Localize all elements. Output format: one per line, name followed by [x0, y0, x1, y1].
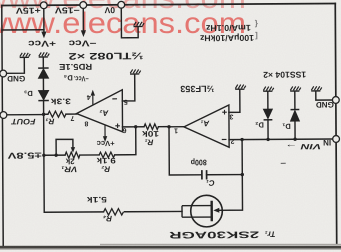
wire C1 branch — [169, 126, 242, 175]
zener D4 RD5.1E — [38, 68, 49, 78]
terminal IN — [333, 136, 340, 143]
arrow +Vcc supply — [41, 32, 46, 39]
wire R4 lead right to FET — [125, 210, 182, 212]
op-amp A2 plus sign — [115, 124, 120, 129]
stray minus mark — [281, 162, 286, 164]
junction node Fout/R3 — [42, 113, 45, 116]
wire gate vertical — [219, 140, 242, 211]
wire VR1 wiper loop — [56, 139, 73, 155]
junction node A1 out — [167, 125, 170, 128]
terminal -15V — [80, 2, 87, 9]
diode D2 1SS104 — [263, 109, 272, 120]
transistor Tr1 body leads — [182, 206, 211, 218]
transistor Tr1 channel bar — [210, 201, 213, 222]
terminal GND left — [0, 70, 7, 77]
op-amp A1 minus sign — [222, 138, 227, 140]
junction node A2 pin6 — [134, 125, 137, 128]
terminal +15V — [40, 2, 47, 9]
wire A1 pin2 and IN rail — [229, 138, 332, 141]
junction node 5.8V row — [42, 154, 45, 157]
potentiometer VR1 2k — [65, 152, 80, 158]
resistor R4 5.1k — [104, 209, 124, 216]
resistor R3 3.3k — [48, 111, 66, 117]
paper noise overlay — [0, 0, 1, 1]
wire R3 leads — [44, 113, 77, 115]
resistor R2 9.1k — [99, 152, 115, 157]
wire -15V stub — [82, 9, 84, 32]
wire VR1 row — [44, 154, 99, 156]
op-amp A2 half TL082 — [76, 90, 122, 132]
wire GND left elbow — [6, 58, 24, 73]
op-amp A2 minus sign — [112, 98, 117, 100]
frame left edge — [2, 6, 3, 247]
arrow VR1 wiper — [71, 147, 75, 153]
wire D2 stubs — [267, 92, 269, 139]
arrow -Vcc supply — [81, 30, 86, 37]
op-amp A1 half LF353 — [184, 105, 229, 147]
wire A2 pin6 lead — [123, 126, 136, 128]
wire +15V stub — [43, 9, 45, 33]
wire A2 pin5 to ground — [122, 75, 135, 101]
terminal GND right — [332, 97, 339, 104]
wire pin6 branch down to R2 — [115, 127, 136, 155]
capacitor C1 800p — [202, 170, 207, 179]
ground symbol G8 GND right — [311, 86, 322, 91]
diode D1 1SS104 — [291, 110, 300, 122]
transistor Tr1 2SK30A JFET circle — [191, 195, 223, 227]
wire Fout to node — [6, 114, 43, 116]
ground symbol G6 D2 — [263, 87, 274, 92]
ground symbol G7 D1 — [290, 86, 301, 91]
frame left step wire — [2, 29, 44, 31]
resistor R1 10k — [144, 124, 159, 130]
diode D3 — [38, 91, 49, 101]
ground symbol G1 left GND — [20, 53, 31, 58]
op-amp A2 pin4 arrow up — [92, 93, 94, 104]
wire D1 stubs — [294, 92, 296, 139]
wire main left vertical — [43, 57, 103, 212]
junction node IN/pin2 — [240, 138, 243, 141]
bottom scan band — [0, 246, 341, 249]
wire A1 pin3 to ground — [229, 90, 240, 112]
frame right edge — [335, 3, 336, 243]
wire 0V elbow — [121, 8, 138, 38]
transistor Tr1 gate arrow — [213, 208, 219, 213]
op-amp A1 plus sign — [222, 110, 227, 115]
ground symbol G4 A2 pin5 — [130, 69, 141, 74]
wire GND right elbow — [316, 92, 333, 101]
terminal 0V — [118, 1, 125, 8]
wire R1 leads — [136, 126, 169, 128]
junction node D1 rail — [293, 138, 296, 141]
ground symbol G3 0V — [133, 22, 144, 27]
terminal Fout — [0, 112, 7, 119]
ground symbol G2 top of D4 — [39, 52, 50, 57]
junction node C1 right — [241, 173, 244, 176]
op-amp A2 pin8 arrow down — [104, 125, 106, 138]
ground symbol G5 A1 pin3 — [235, 85, 246, 90]
wire A1 output — [169, 126, 184, 128]
junction node D2 rail — [266, 138, 269, 141]
frame top edge — [2, 3, 335, 5]
junction node wiper — [54, 153, 57, 156]
